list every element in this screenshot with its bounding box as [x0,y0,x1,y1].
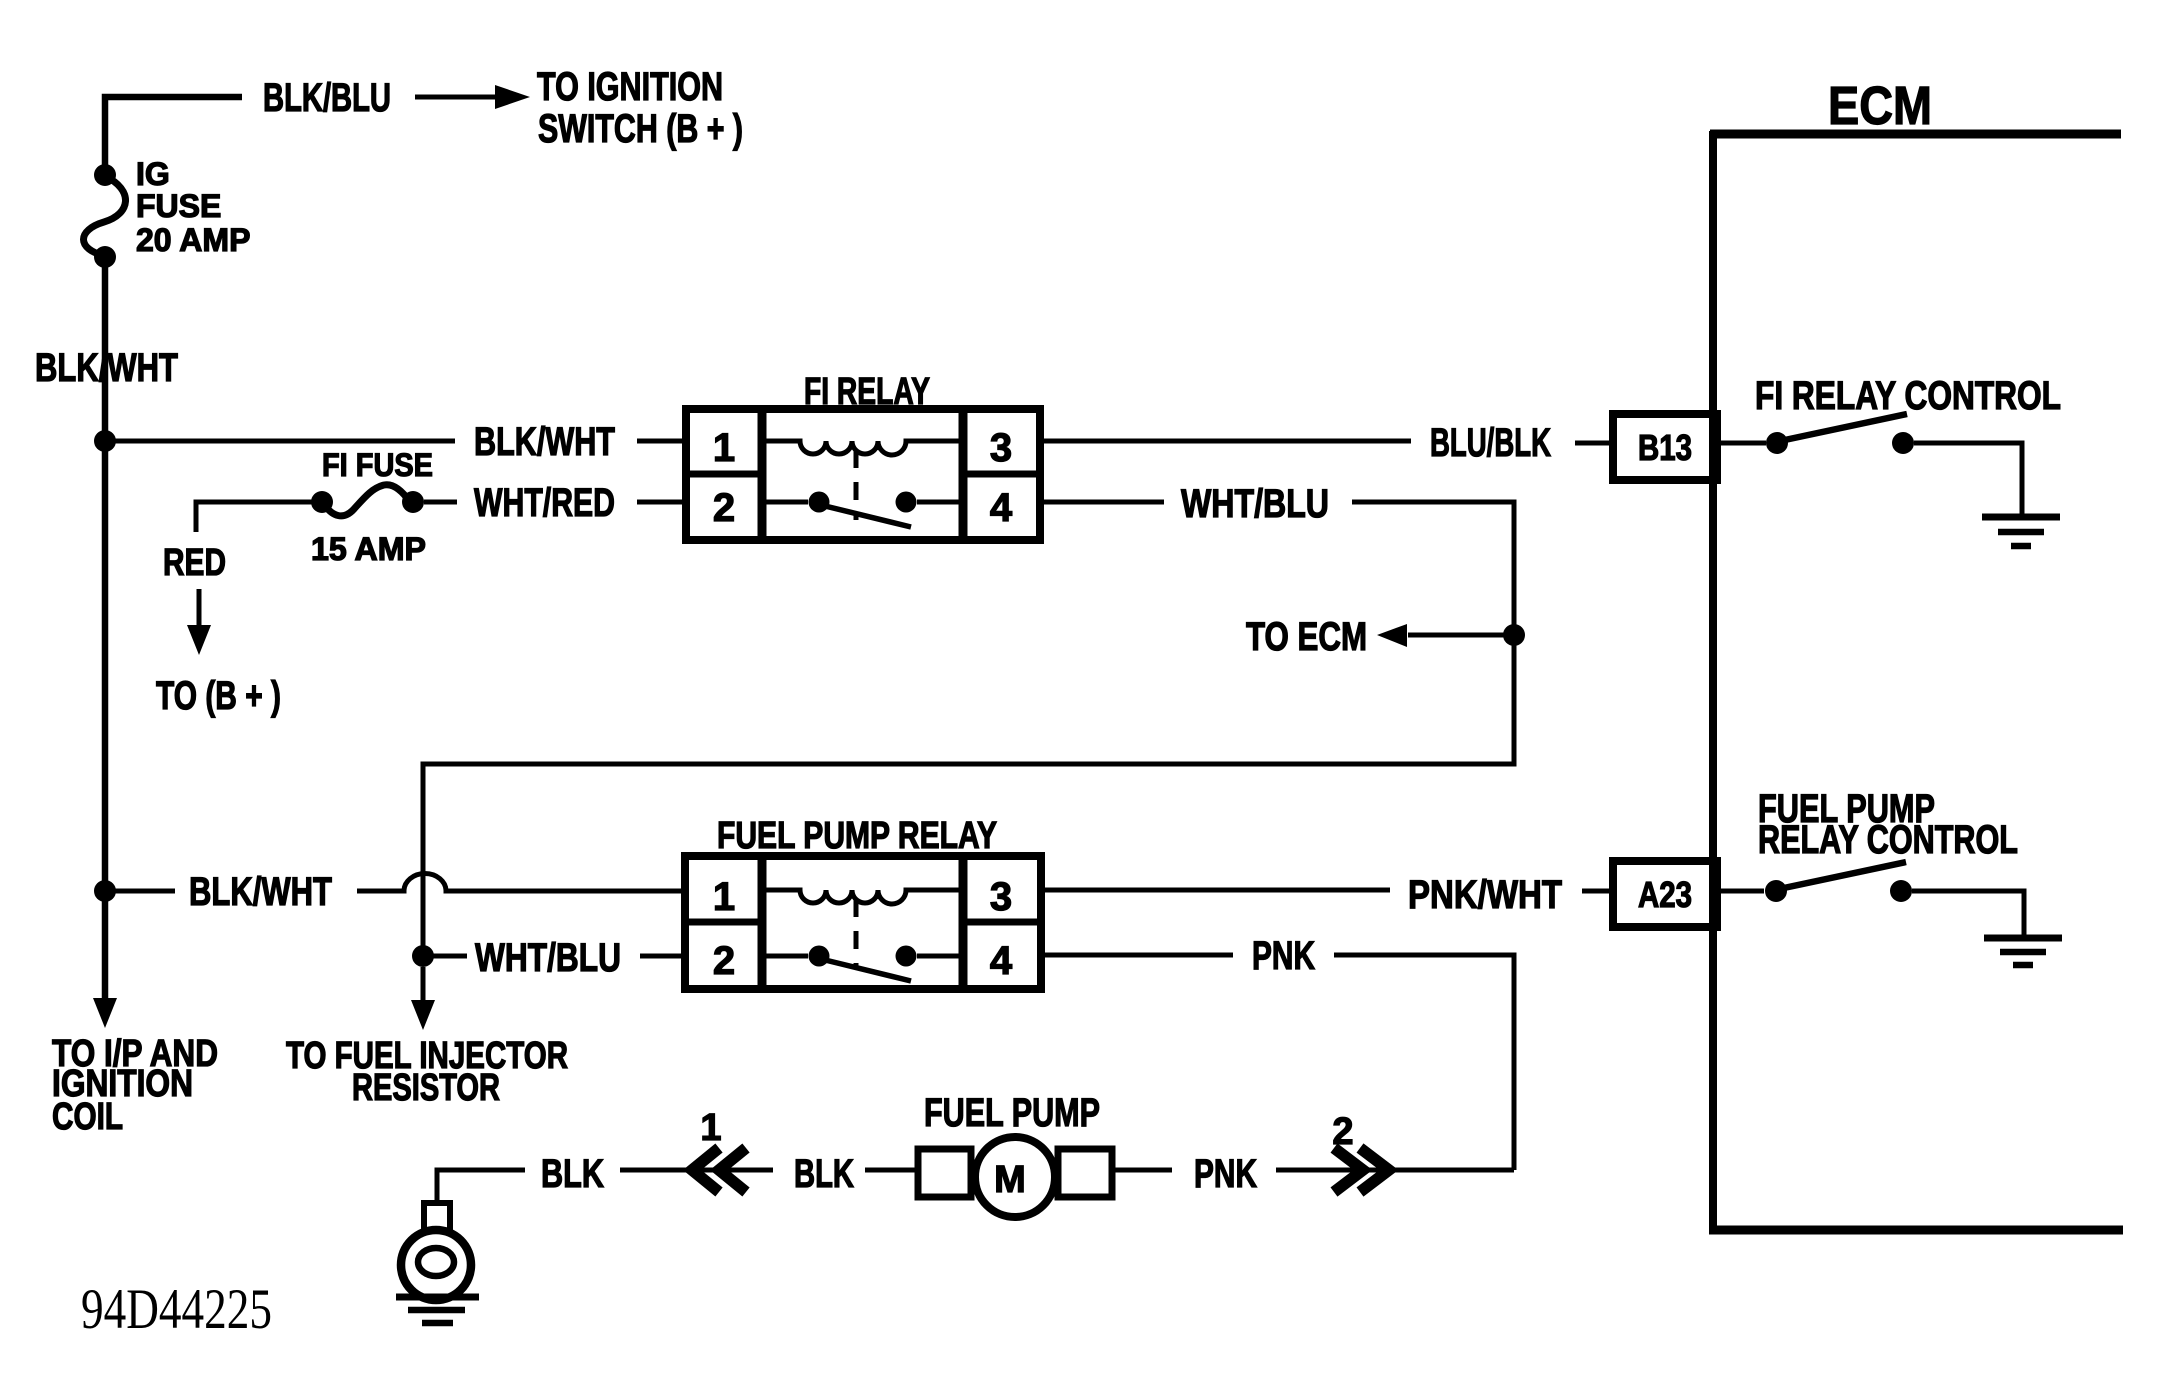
svg-text:2: 2 [713,939,735,983]
svg-text:WHT/BLU: WHT/BLU [475,936,621,980]
svg-text:RELAY CONTROL: RELAY CONTROL [1758,818,2018,862]
svg-text:4: 4 [990,939,1013,983]
svg-text:A23: A23 [1638,874,1692,915]
svg-text:TO ECM: TO ECM [1246,615,1367,659]
svg-text:1: 1 [713,875,735,919]
svg-text:BLU/BLK: BLU/BLK [1430,421,1551,465]
svg-text:TO (B + ): TO (B + ) [156,674,281,718]
svg-text:SWITCH (B + ): SWITCH (B + ) [538,107,743,151]
svg-text:15 AMP: 15 AMP [311,531,426,567]
svg-text:2: 2 [713,486,735,530]
svg-text:1: 1 [700,1107,721,1149]
svg-text:B13: B13 [1638,427,1692,468]
svg-text:BLK/WHT: BLK/WHT [189,870,332,914]
svg-text:TO IGNITION: TO IGNITION [537,65,723,109]
svg-text:RED: RED [163,542,226,584]
svg-text:IG: IG [136,156,170,192]
svg-text:20 AMP: 20 AMP [136,222,250,258]
svg-text:RESISTOR: RESISTOR [352,1067,500,1109]
svg-text:FUEL PUMP RELAY: FUEL PUMP RELAY [717,815,997,857]
svg-text:FI RELAY CONTROL: FI RELAY CONTROL [1755,374,2061,418]
svg-text:2: 2 [1332,1111,1353,1153]
svg-text:FI FUSE: FI FUSE [322,447,433,483]
svg-text:WHT/RED: WHT/RED [474,481,615,525]
svg-text:WHT/BLU: WHT/BLU [1181,482,1329,526]
svg-text:PNK/WHT: PNK/WHT [1408,873,1562,917]
svg-text:4: 4 [990,486,1013,530]
svg-text:BLK: BLK [541,1152,604,1196]
svg-text:FUEL PUMP: FUEL PUMP [924,1091,1100,1135]
svg-text:PNK: PNK [1194,1152,1257,1196]
svg-text:PNK: PNK [1252,934,1315,978]
svg-text:94D44225: 94D44225 [81,1278,272,1341]
svg-text:3: 3 [990,426,1012,470]
svg-text:3: 3 [990,875,1012,919]
svg-text:1: 1 [713,426,735,470]
svg-text:BLK: BLK [794,1152,854,1196]
svg-text:BLK/WHT: BLK/WHT [474,420,615,464]
svg-text:COIL: COIL [52,1096,123,1138]
svg-text:BLK/WHT: BLK/WHT [35,346,178,390]
svg-text:BLK/BLU: BLK/BLU [263,76,391,120]
svg-text:M: M [994,1159,1026,1201]
svg-text:ECM: ECM [1828,76,1932,136]
svg-text:FUSE: FUSE [136,188,221,224]
